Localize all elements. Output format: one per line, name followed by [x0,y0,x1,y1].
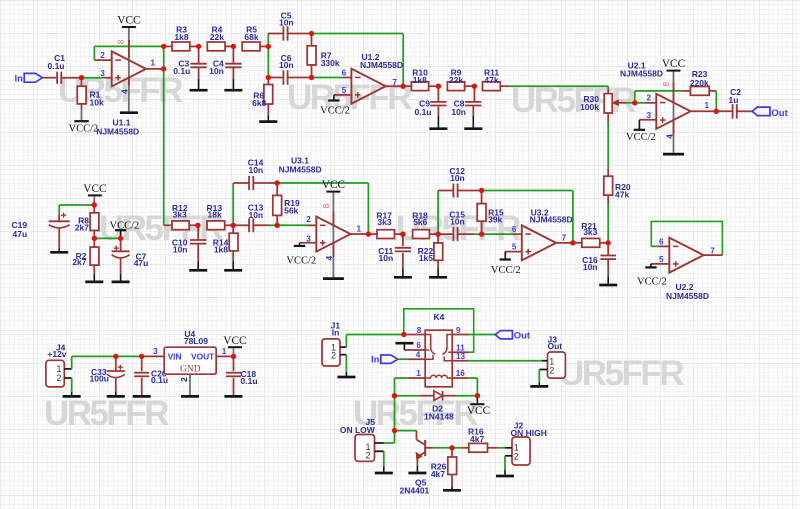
capacitor C16 [607,243,609,256]
ground [112,281,130,284]
connector J4 [46,360,64,387]
feedback wire U1.1 [93,46,95,60]
ground [259,120,277,123]
pin 5 VCC/2 [651,263,669,265]
node U3.1 out [366,231,371,236]
svg-text:Out: Out [548,341,563,351]
svg-text:VIN: VIN [168,351,182,361]
svg-text:0.1u: 0.1u [241,376,258,386]
power VCC down at D2 [476,396,478,404]
pin 4 ground U1.1 [128,78,130,86]
power stem U3.1 [332,193,334,278]
wire VCC to C19 [59,204,94,206]
connector J2 [512,437,530,465]
node R12-R13 [195,223,200,228]
svg-text:VCC: VCC [223,335,246,347]
svg-text:1: 1 [151,59,156,68]
wire into R12 [164,224,172,226]
svg-text:Out: Out [771,108,788,119]
wire pin 13 to J3 [469,360,543,362]
ground [225,395,243,398]
connector J1 [322,339,340,366]
relay contact 2 [442,335,452,355]
wire riser C5/C6 [267,34,269,78]
svg-text:4: 4 [416,350,421,359]
wire loop to pin 11 [404,309,474,352]
svg-text:47u: 47u [134,258,149,268]
svg-text:VCC/2: VCC/2 [626,132,656,143]
capacitor C6 [268,77,283,79]
power stem U2.1 [673,72,675,153]
svg-text:6: 6 [342,68,347,77]
ground [107,395,125,398]
svg-text:2: 2 [549,366,554,376]
capacitor C13 [233,224,249,226]
svg-text:NJM4558D: NJM4558D [530,215,573,225]
svg-text:VCC/2: VCC/2 [637,277,667,288]
svg-text:7: 7 [562,234,567,243]
resistor R1 [81,80,83,86]
ground [464,127,482,130]
svg-text:K4: K4 [433,312,444,322]
capacitor C1 [56,72,58,84]
resistor R15 [481,191,483,204]
capacitor C20 [141,356,143,371]
feedback wire U2.2 [651,221,722,255]
svg-text:1k8: 1k8 [413,75,427,85]
pin 1 output lead [691,110,717,112]
pin 2 lead [94,59,111,61]
svg-text:+12v: +12v [47,349,66,359]
node D2 anode [392,393,397,398]
svg-text:UR5FFR: UR5FFR [44,394,169,433]
relay coil [425,375,452,378]
resistor R9 [447,82,464,91]
svg-text:NJM4558D: NJM4558D [279,165,322,175]
pin 4 wire [398,358,409,360]
wire [42,77,56,79]
resistor R12 [172,221,189,230]
pin 4 ground U2.1 [673,120,675,135]
ground [224,89,242,92]
svg-text:8: 8 [322,203,331,208]
svg-text:3k3: 3k3 [583,227,597,237]
svg-text:7: 7 [392,78,397,87]
capacitor C10 [197,225,199,239]
svg-text:ON HIGH: ON HIGH [511,428,547,438]
ground [443,489,461,492]
svg-text:GND: GND [180,365,201,375]
wire R11 to R30 [509,85,608,87]
wire J1 to relay [345,335,347,348]
svg-text:1k8: 1k8 [174,32,188,42]
connector In arrow [24,73,42,82]
svg-text:10n: 10n [450,217,465,227]
svg-text:5k6: 5k6 [413,217,427,227]
pin 3 VCC/2 [639,119,656,121]
svg-text:10n: 10n [450,173,465,183]
capacitor C5 [268,33,283,35]
svg-text:2: 2 [331,351,336,361]
node R9-R11 [472,84,477,89]
node R3-R4 [196,44,201,49]
wire riser to C14 [232,183,234,225]
wire U1.1 out down to R12 [163,46,165,225]
svg-text:1: 1 [357,224,362,233]
base wire [425,447,434,449]
svg-text:0.1u: 0.1u [47,61,64,71]
pin 6 wire [482,233,514,235]
ground J5 pin2 [383,451,385,466]
svg-text:10n: 10n [451,107,466,117]
wire coil to Q5 [394,378,396,396]
svg-text:In: In [15,74,24,85]
capacitor C15 [438,233,453,235]
resistor R2 [93,238,95,247]
svg-text:10n: 10n [279,60,294,70]
svg-text:18k: 18k [208,210,222,220]
wire coil to VCC [468,377,477,379]
connector J5 [355,435,375,462]
pin 9 lead [452,334,468,336]
pin 5 VCC/2 [334,94,352,96]
svg-text:VCC/2: VCC/2 [491,265,521,276]
ground [663,153,684,156]
connector J3 [548,352,566,378]
svg-text:VCC/2: VCC/2 [320,106,350,117]
diode D2 [395,395,421,397]
svg-text:In: In [332,327,340,337]
node C14-R19 [275,180,280,185]
node C13-R19 [275,223,280,228]
svg-text:In: In [371,354,380,365]
capacitor C2 [716,110,733,112]
svg-text:13: 13 [456,352,466,361]
pin 1 coil lead [408,377,425,379]
pin 7 output lead [704,254,723,256]
svg-text:39k: 39k [488,214,502,224]
svg-text:8: 8 [417,326,422,335]
connector In arrow relay [381,355,398,363]
svg-text:1: 1 [416,369,421,378]
svg-text:9: 9 [456,326,461,335]
svg-text:1N4148: 1N4148 [424,411,454,421]
op-amp U2.1 [656,94,690,129]
svg-text:2: 2 [306,215,311,224]
svg-text:4: 4 [121,89,130,94]
svg-text:3: 3 [646,111,651,120]
wire C20 to U4 [142,355,165,357]
svg-text:1u: 1u [729,95,739,105]
node C6 row [266,75,271,80]
svg-text:1k8: 1k8 [214,244,228,254]
node U1.1 out [161,66,166,71]
svg-text:NJM4558D: NJM4558D [360,60,403,70]
svg-text:7: 7 [710,246,715,255]
node C7 [118,236,123,241]
pin 6 ground [404,349,425,351]
capacitor C3 [198,46,200,63]
node R10-R9 [436,84,441,89]
svg-text:0.1u: 0.1u [151,375,168,385]
regulator U4 78L09 [164,347,216,374]
pin 3 VCC/2 [300,242,317,244]
svg-text:2: 2 [365,450,370,460]
node R30 wiper [632,100,637,105]
op-amp U3.2 [522,225,556,260]
resistor R11 [483,82,501,91]
ground [408,472,426,475]
node Q5 collector [392,428,397,433]
ground J1 pin2 [345,355,347,372]
node U2.1 out [714,109,719,114]
svg-text:8: 8 [116,39,125,44]
pin 13 lead [452,360,468,362]
resistor R22 [437,234,439,243]
power VCC U2.1 [667,70,681,72]
power VCC U1.1 [122,26,136,28]
pin 5 VCC/2 [505,251,522,253]
capacitor C18 [233,356,235,371]
wire J4 to U4 [71,356,73,369]
ground [120,111,138,114]
connector Out arrow [752,107,770,116]
node R4-R5 [231,44,236,49]
ground [189,269,207,272]
node relay in [401,332,406,337]
node U3.2 out [570,240,575,245]
ground [50,251,68,254]
svg-text:100u: 100u [90,374,109,384]
node C5-R7 [309,31,314,36]
capacitor C8 [473,86,475,101]
capacitor C9 [437,86,439,101]
resistor R10 [403,85,411,87]
wire [61,77,81,79]
svg-text:VOUT: VOUT [191,351,215,361]
wire wiper [626,102,635,104]
capacitor C33 [115,356,117,371]
svg-text:2k7: 2k7 [75,223,89,233]
resistor R17 [368,233,377,235]
power VCC U4 out [228,346,242,348]
ground [323,277,344,280]
svg-text:5: 5 [659,255,664,264]
resistor R23 [682,90,690,92]
feedback wire to R23 [634,91,636,103]
node R5 out [266,44,271,49]
svg-text:VCC/2: VCC/2 [69,123,99,134]
node VCC [92,202,97,207]
ground J4 pin2 [71,378,73,392]
svg-text:10n: 10n [583,262,598,272]
svg-text:VCC: VCC [662,58,685,70]
power VCC U3.1 [326,191,340,193]
node R21 out [606,240,611,245]
svg-text:VCC: VCC [83,183,106,195]
svg-text:4: 4 [325,255,334,260]
capacitor C7 [120,238,122,251]
node D2 cathode VCC [475,393,480,398]
svg-text:220k: 220k [690,78,709,88]
capacitor C11 [402,234,404,246]
op-amp U2.2 [669,238,703,273]
connector Out arrow relay [495,331,512,339]
svg-text:68k: 68k [244,32,258,42]
svg-text:10n: 10n [173,244,188,254]
svg-text:VCC: VCC [467,405,490,417]
svg-text:10n: 10n [379,253,394,263]
resistor R18 [413,230,430,239]
svg-text:2: 2 [180,377,189,382]
resistor R21 [573,242,582,244]
svg-text:10k: 10k [90,97,104,107]
node C6-R7 [309,75,314,80]
pin 7 output lead [386,85,404,87]
svg-text:VCC/2: VCC/2 [286,256,316,267]
svg-text:3k3: 3k3 [377,217,391,227]
ground [599,284,617,287]
svg-text:100k: 100k [580,102,599,112]
ground J3 pin2 [538,370,540,383]
svg-text:4: 4 [665,134,674,139]
svg-text:NJM4558D: NJM4558D [96,126,139,136]
svg-text:6: 6 [512,225,517,234]
svg-text:4k7: 4k7 [431,469,445,479]
resistor R3 [164,45,172,47]
wire pin 9 to Out [469,334,496,336]
node U1.2 out [401,84,406,89]
resistor R14 [232,225,234,233]
svg-text:2: 2 [100,51,105,60]
ground [190,89,208,92]
power VCC/2 under R1 [81,110,83,121]
node C12-R15 [479,188,484,193]
svg-text:VCC: VCC [322,179,345,191]
resistor R20 [607,168,609,176]
op-amp U1.2 [351,69,385,104]
node R18 out [435,231,440,236]
svg-text:56k: 56k [284,205,298,215]
pin 6 wire [312,77,343,79]
resistor R16 [452,447,462,449]
svg-text:1: 1 [222,347,227,356]
ground [133,395,151,398]
ground [429,276,447,279]
svg-text:330k: 330k [321,58,340,68]
svg-text:16: 16 [456,369,466,378]
svg-text:VCC/2: VCC/2 [110,220,140,231]
pin 7 output lead [556,242,573,244]
wire VCC/2 node [94,237,120,239]
ground [85,281,103,284]
potentiometer R30 [607,86,609,89]
pin 1 output lead [216,355,233,357]
svg-text:6k8: 6k8 [252,98,266,108]
svg-text:10n: 10n [209,66,224,76]
resistor R26 [451,448,453,457]
svg-text:Out: Out [514,331,531,342]
ground [224,269,242,272]
node feedback [161,44,166,49]
svg-text:2: 2 [514,451,519,461]
svg-text:2: 2 [56,373,61,383]
node C33 [113,354,118,359]
svg-text:NJM4558D: NJM4558D [620,69,663,79]
ground [394,276,412,279]
pin 16 coil lead [452,377,468,379]
resistor R6 [267,78,269,85]
svg-text:47u: 47u [13,229,28,239]
resistor R8 [93,205,95,213]
node base [449,445,454,450]
svg-text:2: 2 [646,94,651,103]
svg-text:47k: 47k [484,75,498,85]
pin 1 output lead [146,68,164,70]
pin 4 ground U3.1 [332,243,334,257]
svg-text:1: 1 [705,101,710,110]
feedback wire C12 to U3.2 out [482,190,573,192]
node input [79,75,84,80]
svg-text:6: 6 [659,238,664,247]
svg-text:10n: 10n [248,210,263,220]
svg-text:10n: 10n [279,17,294,27]
svg-text:NJM4558D: NJM4558D [666,291,709,301]
relay contact 1 [425,335,435,355]
feedback wire C14 to U3.1 out [277,182,368,184]
resistor R13 [207,221,225,230]
wire C5 to U1.2 out [312,33,404,35]
wire riser to C12 [437,191,439,235]
op-amp U3.1 [316,217,350,252]
wire R23 to out node [715,91,717,111]
node R13 out [231,223,236,228]
capacitor C14 [233,182,249,184]
resistor R7 [311,34,313,46]
node R17-R18 [400,231,405,236]
svg-text:8: 8 [662,82,671,87]
svg-text:0.1u: 0.1u [414,107,431,117]
svg-text:5: 5 [512,242,517,251]
pin 1 output lead [351,233,369,235]
wire J5 pin1 [384,442,395,444]
svg-text:10n: 10n [248,165,263,175]
ground J2 pin2 [504,456,506,470]
node VCC/2 source [92,236,97,241]
svg-text:0.1u: 0.1u [173,66,190,76]
wire collector [395,430,417,432]
pin 11 lead [452,351,468,353]
power label VCC/2 source [120,231,122,239]
node C20 [139,354,144,359]
node VCC out [231,354,236,359]
capacitor C4 [232,46,234,63]
svg-text:VCC: VCC [117,15,140,27]
op-amp U1.1 [112,51,146,86]
capacitor C12 [438,190,453,192]
pin 2 wire [277,224,307,226]
svg-text:ON LOW: ON LOW [340,425,376,435]
power VCC mid-left [88,194,102,196]
svg-text:3k3: 3k3 [173,210,187,220]
svg-text:5: 5 [342,86,347,95]
resistor R4 [207,42,225,51]
svg-text:6: 6 [416,341,421,350]
svg-text:1k5: 1k5 [419,253,433,263]
svg-text:3: 3 [153,347,158,356]
pin 2 wire [635,102,645,104]
power stem U1.1 [128,28,130,111]
